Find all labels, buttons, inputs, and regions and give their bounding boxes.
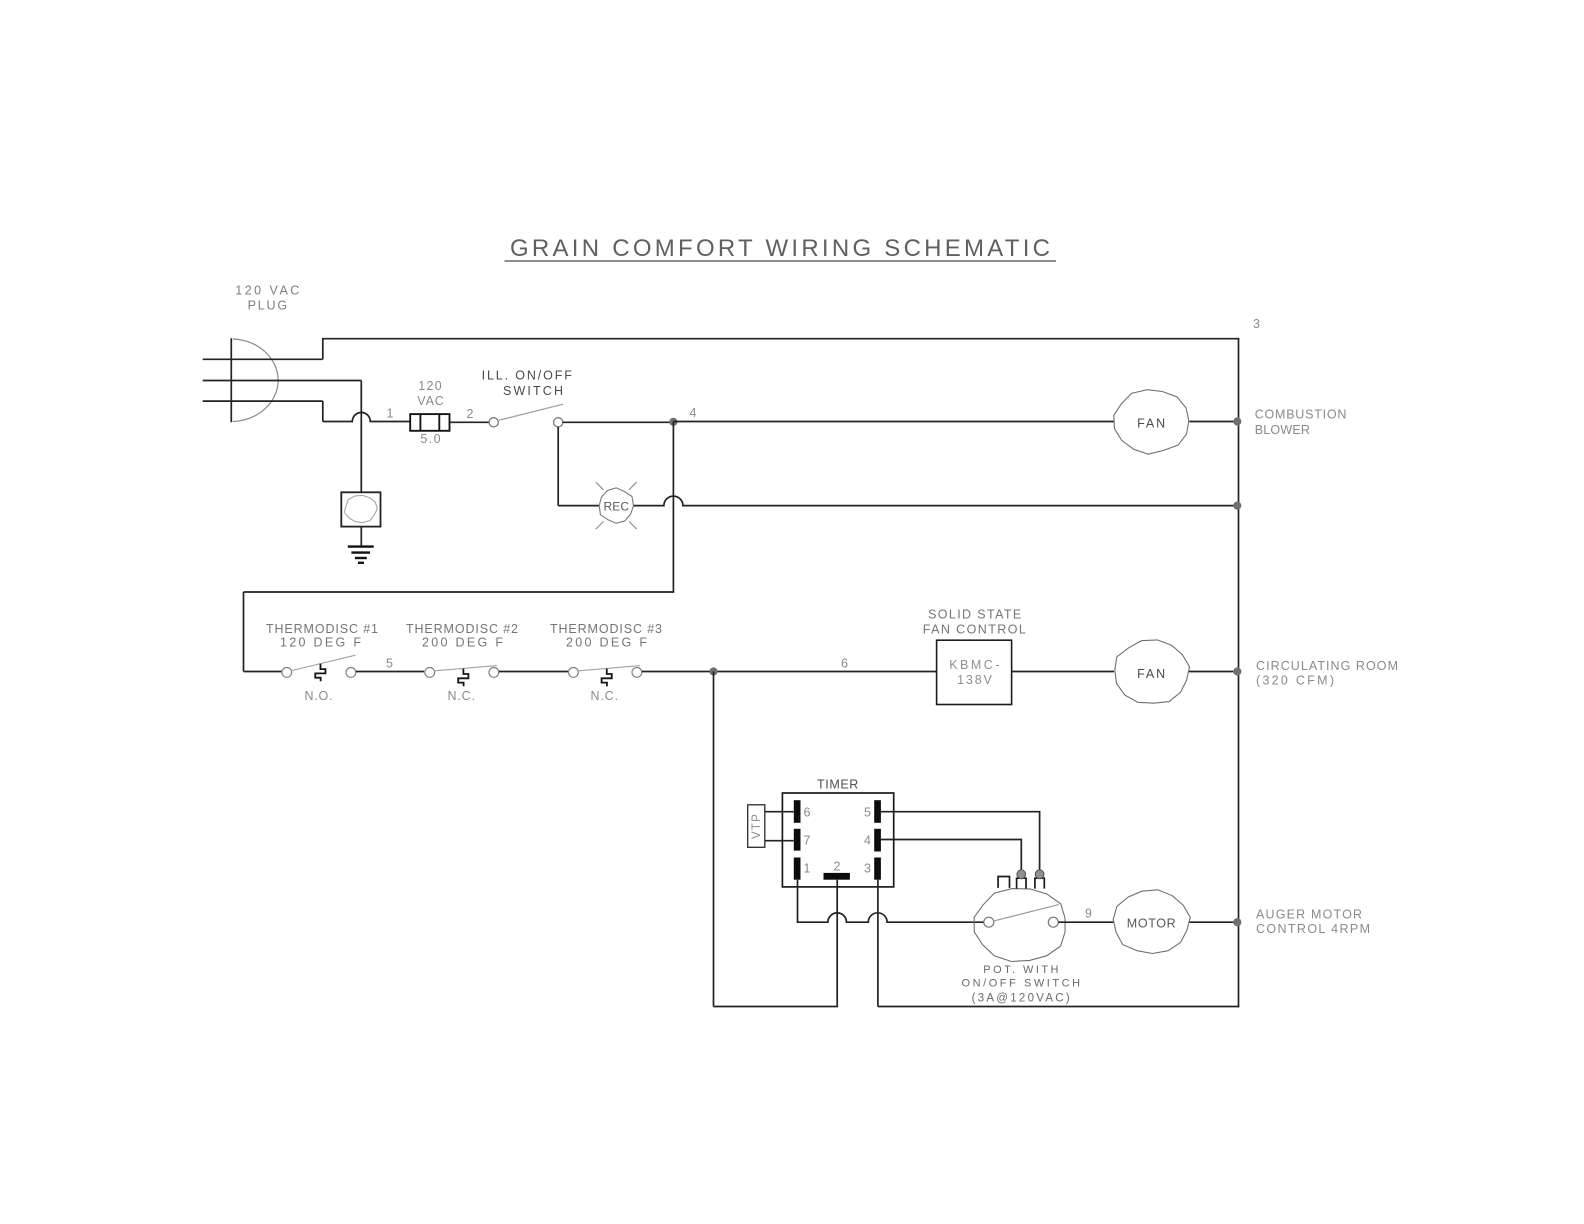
svg-text:3: 3	[864, 862, 871, 876]
wire: right bus vertical	[1238, 338, 1240, 1007]
thermodisc switch TD1 (N.O.)	[282, 655, 356, 681]
label SOLID STATE FAN CONTROL	[923, 608, 1026, 637]
svg-text:4: 4	[690, 406, 697, 420]
timer pin 1	[794, 858, 811, 880]
outlet inner circle	[344, 495, 377, 522]
pot on/off switch throw contact	[1048, 917, 1058, 927]
load label AUGER MOTOR CONTROL 4RPM	[1256, 907, 1370, 935]
wire: bottom rail left segment to timer pin 2	[714, 1006, 839, 1008]
wire: node 4 to combustion fan	[673, 421, 1114, 423]
timer pin 3	[864, 858, 881, 880]
wire: left drop to thermodisc row	[243, 592, 245, 672]
wire: outlet to ground	[360, 527, 362, 547]
wire: to thermodisc #1	[244, 671, 283, 673]
svg-text:THERMODISC #1: THERMODISC #1	[266, 622, 378, 636]
switch S1 throw contact	[554, 418, 563, 427]
wire: motor to right bus	[1190, 921, 1239, 923]
svg-text:TIMER: TIMER	[817, 778, 858, 792]
timer pin 4	[864, 829, 881, 852]
svg-text:THERMODISC #2: THERMODISC #2	[406, 622, 518, 636]
svg-text:N.C.: N.C.	[448, 689, 476, 703]
thermodisc switch TD3 (N.C.)	[569, 666, 642, 687]
motor M1 (auger motor)	[1113, 890, 1190, 954]
fuse F1 value label 120 VAC	[417, 379, 444, 408]
thermodisc TD1 labels THERMODISC #1 / 120 DEG F	[266, 622, 378, 650]
fan control module U1 (KBMC-138V)	[937, 640, 1012, 704]
svg-text:(3A@120VAC): (3A@120VAC)	[972, 992, 1070, 1004]
wire: to REC lamp	[558, 505, 599, 507]
svg-text:VAC: VAC	[417, 394, 444, 408]
svg-text:200 DEG F: 200 DEG F	[422, 636, 503, 650]
wire: circulating fan to right bus	[1189, 671, 1239, 673]
switch S1 label ILL. ON/OFF SWITCH	[482, 368, 573, 398]
svg-text:(320 CFM): (320 CFM)	[1256, 674, 1334, 688]
junction node: REC line at right bus	[1233, 502, 1241, 510]
wire: VTP to timer pin 7	[765, 840, 794, 842]
svg-text:5: 5	[386, 656, 393, 670]
wire: pot switch to motor, node label 9	[1058, 907, 1113, 923]
svg-text:9: 9	[1085, 907, 1092, 921]
switch S1 blade	[499, 404, 563, 420]
switch S1 pole contact	[489, 418, 498, 427]
plug P1 (120 VAC plug)	[231, 338, 278, 422]
svg-text:GRAIN COMFORT WIRING SCHEMATIC: GRAIN COMFORT WIRING SCHEMATIC	[510, 235, 1050, 262]
wire: timer pin 1 down and right to pot switch, humps over pin2/pin3 verticals	[798, 880, 985, 923]
wire: switch throw down to REC lamp	[557, 427, 559, 506]
svg-text:COMBUSTION: COMBUSTION	[1255, 408, 1347, 422]
wire: TD1 to TD2, node label 5	[356, 656, 424, 671]
svg-text:N.O.: N.O.	[305, 689, 333, 703]
lamp DS1 (REC indicator)	[596, 482, 637, 529]
pot labels POT. WITH / ON/OFF SWITCH / (3A@120VAC)	[962, 964, 1081, 1005]
fan B1 (combustion blower)	[1114, 390, 1189, 455]
pot on/off switch blade	[994, 905, 1059, 921]
junction node: combustion fan at right bus	[1233, 417, 1241, 425]
plug P1 label 120 VAC PLUG	[235, 284, 299, 313]
wire: combustion fan to right bus	[1189, 421, 1238, 423]
svg-text:PLUG: PLUG	[248, 298, 288, 312]
wire: horizontal return	[244, 591, 675, 593]
title: GRAIN COMFORT WIRING SCHEMATIC	[505, 235, 1057, 262]
wire: fan control to circulating fan	[1012, 671, 1114, 673]
wire: timer pin 4 to pot terminal 2	[881, 840, 1021, 870]
svg-text:7: 7	[804, 834, 811, 848]
wire: REC to right bus with hump over node-4 vertical	[634, 496, 1239, 506]
svg-text:CONTROL 4RPM: CONTROL 4RPM	[1256, 922, 1370, 936]
wire: plug top prong	[203, 358, 323, 360]
svg-text:6: 6	[841, 657, 848, 671]
svg-text:FAN: FAN	[1137, 667, 1165, 681]
svg-text:ILL. ON/OFF: ILL. ON/OFF	[482, 368, 573, 382]
wire: VTP to timer pin 6	[765, 811, 794, 813]
ground symbol	[348, 547, 374, 563]
outlet/receptacle box (ground connection)	[341, 492, 380, 526]
svg-text:200 DEG F: 200 DEG F	[566, 636, 647, 650]
load label COMBUSTION BLOWER	[1255, 408, 1347, 437]
svg-text:FAN CONTROL: FAN CONTROL	[923, 622, 1026, 636]
svg-text:1: 1	[387, 407, 394, 421]
svg-text:5: 5	[864, 805, 871, 819]
pot terminal 1 (unused)	[998, 877, 1009, 888]
svg-text:6: 6	[804, 805, 811, 819]
pot on/off switch pole contact	[984, 917, 994, 927]
svg-text:3: 3	[1253, 317, 1260, 331]
svg-text:2: 2	[834, 860, 841, 874]
wire: TD2 to TD3	[499, 671, 569, 673]
load label CIRCULATING ROOM (320 CFM)	[1256, 659, 1398, 688]
svg-text:VTP: VTP	[751, 813, 763, 839]
timer pin 2	[824, 860, 850, 880]
svg-text:5.0: 5.0	[420, 432, 440, 446]
svg-text:AUGER MOTOR: AUGER MOTOR	[1256, 907, 1362, 921]
svg-text:BLOWER: BLOWER	[1255, 423, 1310, 437]
svg-text:REC: REC	[604, 500, 630, 514]
junction node at timer branch	[709, 667, 717, 675]
wire: node 4 vertical down	[672, 422, 674, 593]
wire: neutral vertical drop to outlet	[360, 381, 362, 493]
wire: step up from plug to top bus	[322, 338, 324, 359]
wire: switch to node 4	[563, 421, 674, 423]
svg-text:120: 120	[418, 379, 441, 393]
wire: TD3 to fan control, node label 6	[642, 657, 937, 672]
svg-text:120 DEG F: 120 DEG F	[280, 636, 361, 650]
fuse F1 (5.0 A)	[410, 414, 449, 431]
timer pin 5	[864, 800, 881, 823]
thermodisc TD2 labels THERMODISC #2 / 200 DEG F	[406, 622, 518, 650]
svg-text:138V: 138V	[957, 673, 992, 687]
wire: timer pin 2 vertical down to bottom rail	[836, 880, 838, 1007]
svg-text:N.C.: N.C.	[591, 689, 619, 703]
wire: fuse to switch	[450, 421, 490, 423]
svg-text:4: 4	[864, 834, 871, 848]
pot terminal 3	[1035, 870, 1044, 889]
svg-text:1: 1	[804, 862, 811, 876]
svg-text:MOTOR: MOTOR	[1127, 916, 1176, 930]
U1 value label KBMC-138V	[949, 658, 999, 687]
potentiometer R1 body	[974, 889, 1065, 962]
wire: top bus (net 3)	[323, 338, 1240, 340]
timer pin 6	[794, 800, 811, 823]
wire: plug bottom prong	[203, 400, 323, 402]
pot terminal 2	[1017, 870, 1026, 889]
wire: from plug to fuse with crossover hump at x=361	[323, 413, 410, 422]
thermodisc switch TD2 (N.C.)	[425, 666, 499, 687]
svg-text:FAN: FAN	[1137, 417, 1165, 431]
wire: thermodisc node down to bottom rail	[713, 672, 715, 1007]
svg-text:CIRCULATING ROOM: CIRCULATING ROOM	[1256, 659, 1398, 673]
timer pin 7	[794, 829, 811, 851]
junction node 4	[669, 418, 677, 426]
wire: step down from plug bottom prong	[322, 401, 324, 421]
wire: bottom rail right segment	[878, 1006, 1239, 1008]
svg-text:KBMC-: KBMC-	[949, 658, 999, 672]
VTP module	[748, 805, 765, 848]
wire: timer pin 3 vertical down	[877, 880, 879, 1007]
svg-text:SOLID STATE: SOLID STATE	[928, 608, 1021, 622]
timer U2 body	[782, 793, 893, 887]
junction node: circulating fan at right bus	[1233, 667, 1241, 675]
svg-text:THERMODISC #3: THERMODISC #3	[550, 622, 662, 636]
thermodisc TD3 labels THERMODISC #3 / 200 DEG F	[550, 622, 662, 650]
junction node: motor at right bus	[1233, 918, 1241, 926]
wire: timer pin 5 to pot terminal 3	[881, 812, 1040, 870]
svg-text:2: 2	[467, 407, 474, 421]
svg-text:ON/OFF SWITCH: ON/OFF SWITCH	[962, 978, 1081, 990]
wire: plug neutral prong	[203, 380, 362, 382]
fan B2 (circulating room fan)	[1115, 640, 1190, 703]
